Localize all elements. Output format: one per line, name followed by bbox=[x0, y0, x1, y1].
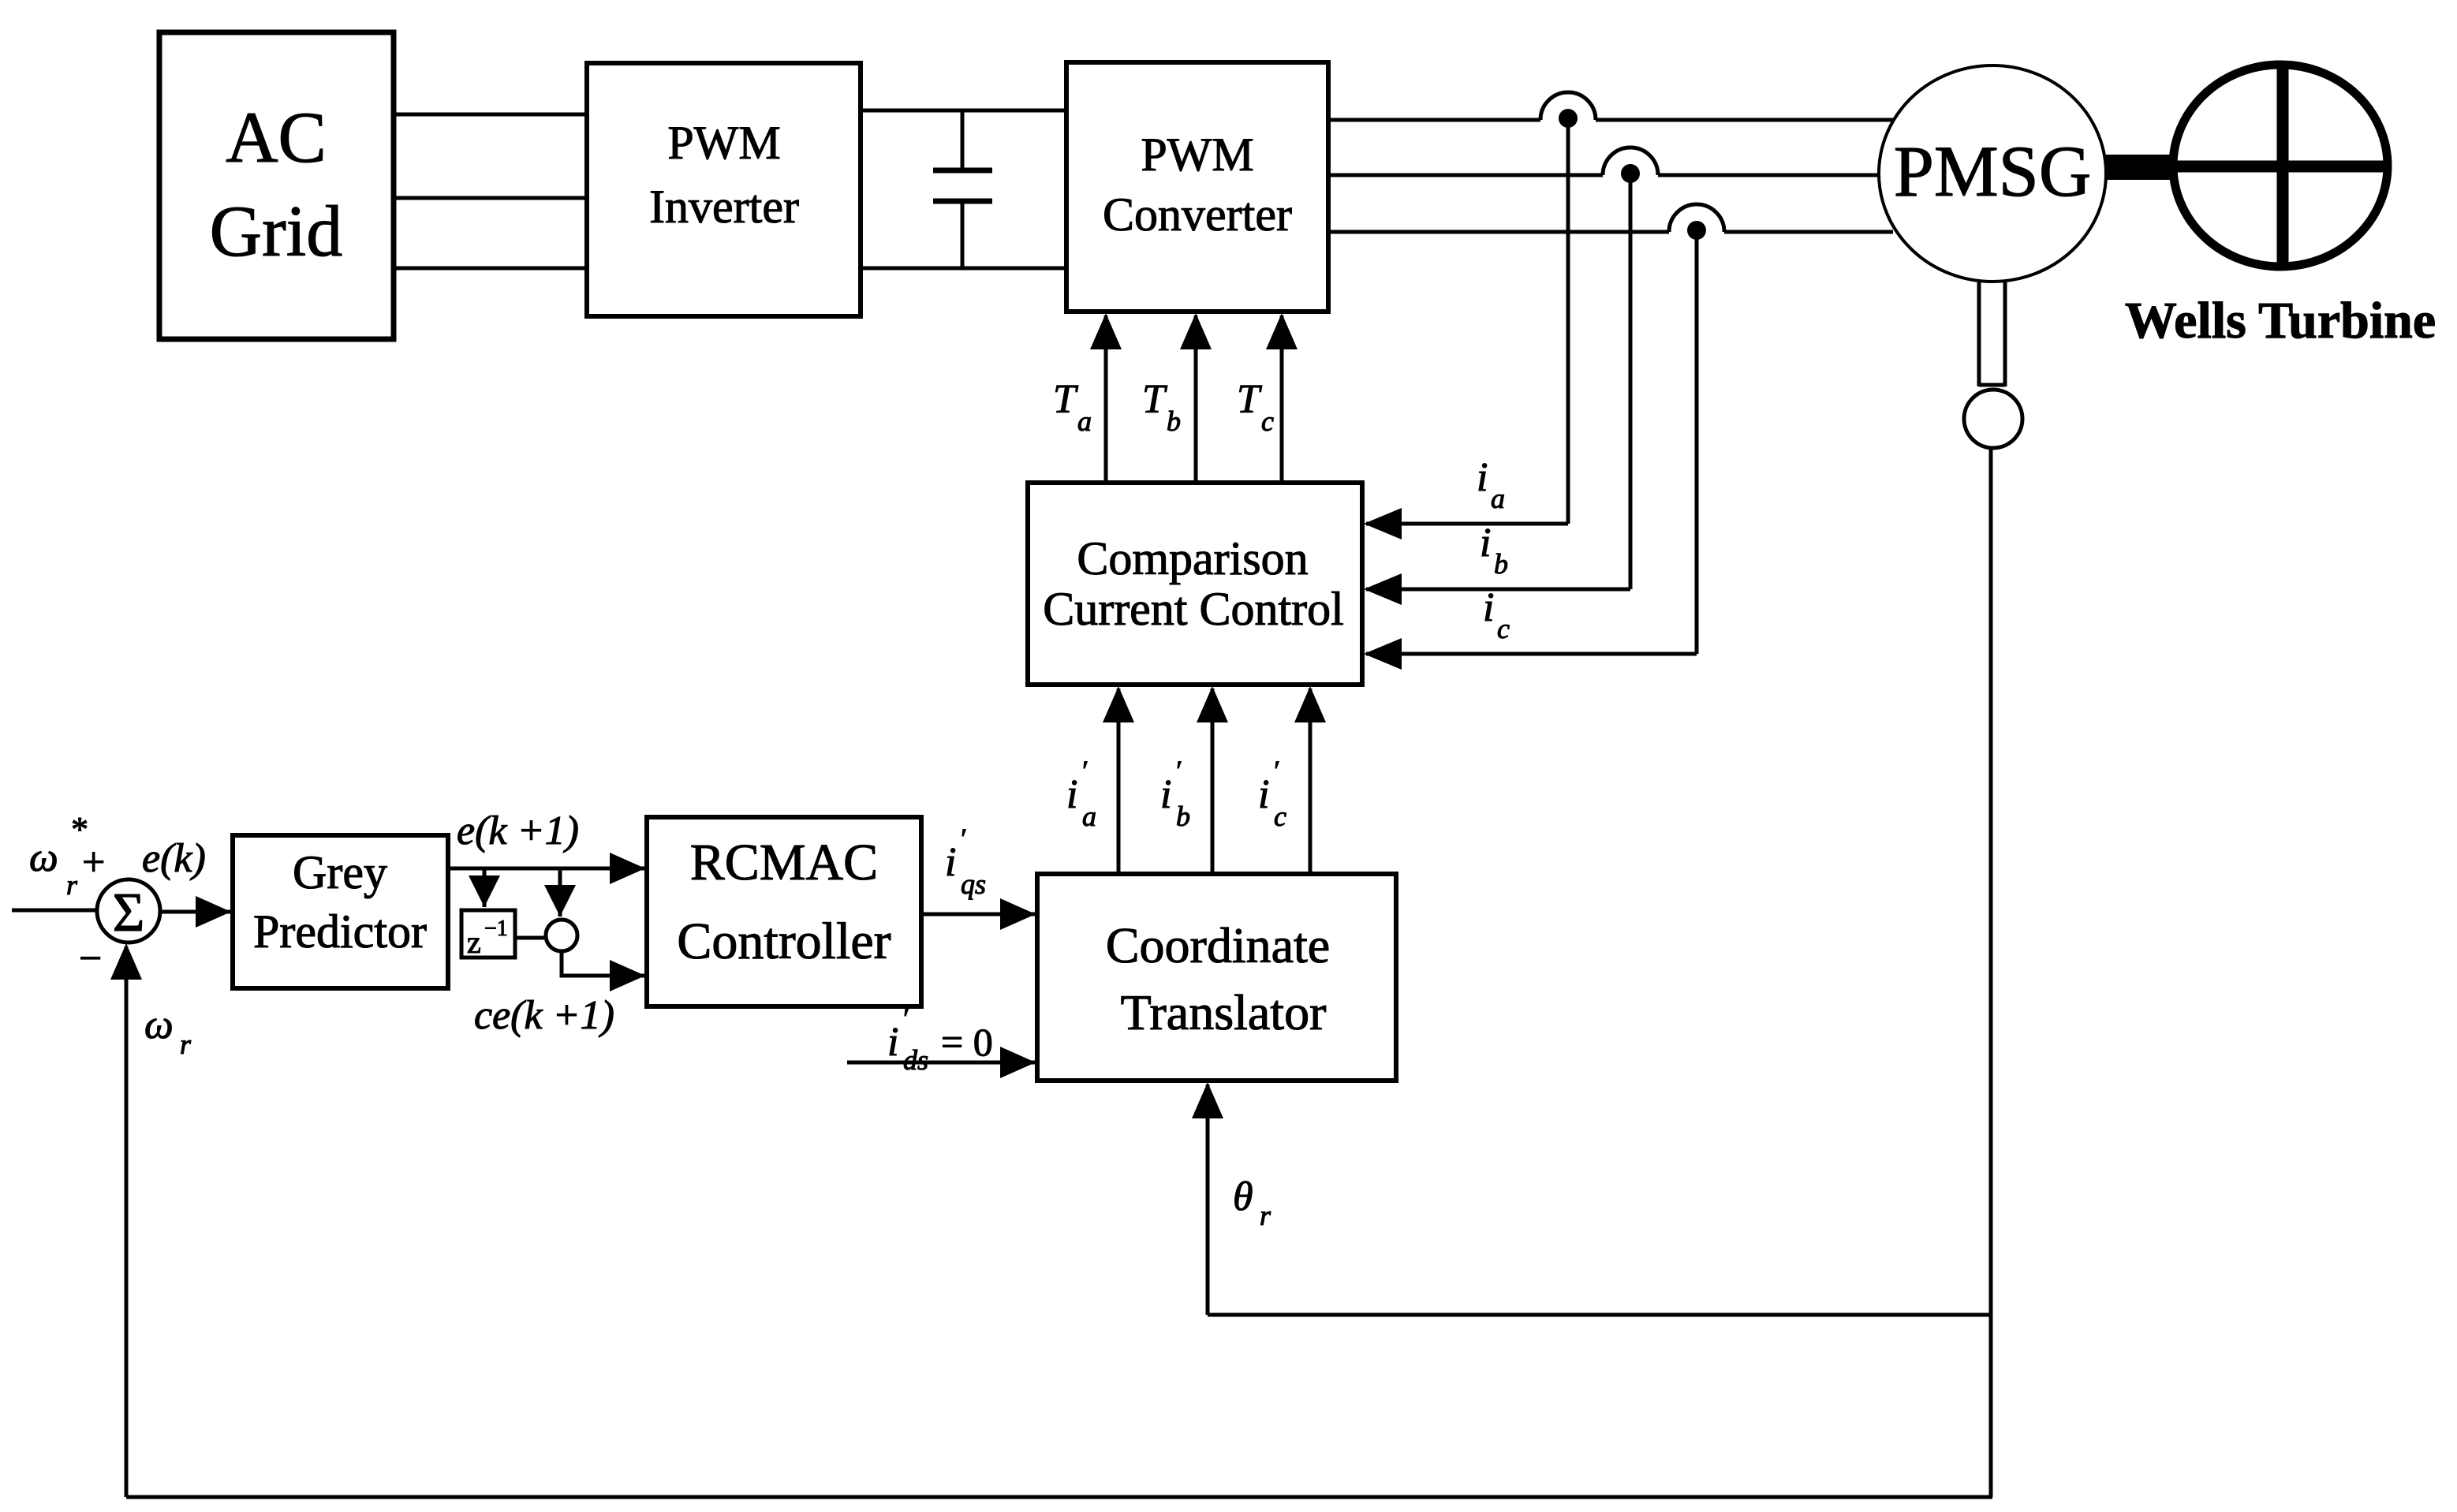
svg-text:Coordinate: Coordinate bbox=[1106, 917, 1330, 973]
svg-text:′: ′ bbox=[1081, 755, 1088, 786]
svg-text:T: T bbox=[1053, 377, 1078, 422]
svg-text:i: i bbox=[1477, 455, 1488, 500]
svg-text:= 0: = 0 bbox=[941, 1020, 993, 1064]
svg-text:c: c bbox=[1497, 613, 1510, 644]
svg-text:Converter: Converter bbox=[1103, 189, 1292, 241]
svg-text:b: b bbox=[1167, 405, 1181, 437]
svg-text:r: r bbox=[1260, 1200, 1271, 1231]
svg-text:ω: ω bbox=[29, 835, 58, 880]
svg-text:i: i bbox=[1258, 772, 1269, 817]
svg-text:Grey: Grey bbox=[293, 846, 387, 898]
svg-text:ds: ds bbox=[903, 1044, 928, 1076]
svg-text:Σ: Σ bbox=[113, 883, 145, 943]
svg-text:+: + bbox=[82, 840, 105, 885]
svg-text:c: c bbox=[1274, 801, 1286, 832]
svg-text:i: i bbox=[1480, 521, 1491, 566]
svg-text:PWM: PWM bbox=[667, 117, 780, 169]
svg-text:′: ′ bbox=[1272, 755, 1279, 786]
svg-text:i: i bbox=[1483, 585, 1494, 630]
svg-text:b: b bbox=[1176, 801, 1190, 832]
svg-text:Wells Turbine: Wells Turbine bbox=[2125, 292, 2436, 349]
svg-text:i: i bbox=[945, 840, 956, 885]
svg-text:a: a bbox=[1491, 483, 1505, 514]
svg-text:ω: ω bbox=[144, 1002, 174, 1047]
svg-text:Controller: Controller bbox=[677, 913, 891, 970]
svg-text:a: a bbox=[1077, 405, 1092, 437]
svg-text:Translator: Translator bbox=[1121, 984, 1327, 1040]
svg-text:AC: AC bbox=[226, 97, 327, 177]
svg-text:T: T bbox=[1142, 377, 1167, 422]
svg-text:Comparison: Comparison bbox=[1077, 532, 1308, 584]
svg-text:′: ′ bbox=[902, 1002, 909, 1034]
svg-text:Grid: Grid bbox=[210, 191, 343, 271]
svg-text:qs: qs bbox=[961, 868, 986, 900]
svg-text:r: r bbox=[66, 869, 78, 901]
svg-text:a: a bbox=[1082, 801, 1096, 832]
svg-text:i: i bbox=[1066, 772, 1077, 817]
svg-text:Current Control: Current Control bbox=[1043, 583, 1344, 635]
svg-text:′: ′ bbox=[1174, 755, 1182, 786]
svg-text:−: − bbox=[79, 936, 102, 981]
svg-text:ce(k +1): ce(k +1) bbox=[474, 993, 614, 1038]
svg-text:Inverter: Inverter bbox=[649, 181, 799, 233]
svg-text:RCMAC: RCMAC bbox=[690, 834, 878, 891]
svg-text:PMSG: PMSG bbox=[1894, 131, 2092, 211]
svg-text:i: i bbox=[1160, 772, 1171, 817]
svg-text:e(k): e(k) bbox=[142, 836, 206, 881]
svg-text:θ: θ bbox=[1233, 1174, 1253, 1219]
svg-text:PWM: PWM bbox=[1141, 129, 1253, 181]
svg-text:e(k +1): e(k +1) bbox=[457, 808, 579, 853]
svg-text:i: i bbox=[887, 1020, 898, 1065]
svg-text:z: z bbox=[467, 924, 481, 960]
svg-text:r: r bbox=[180, 1029, 192, 1060]
svg-text:′: ′ bbox=[959, 823, 966, 854]
svg-text:b: b bbox=[1494, 548, 1508, 580]
svg-text:−1: −1 bbox=[484, 917, 508, 941]
svg-text:c: c bbox=[1261, 405, 1274, 437]
svg-text:Predictor: Predictor bbox=[253, 905, 427, 958]
svg-text:T: T bbox=[1237, 377, 1262, 422]
